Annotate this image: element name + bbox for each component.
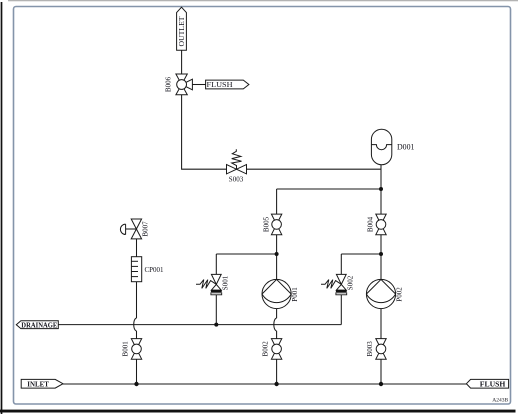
svg-text:B001: B001 [121,341,129,357]
svg-text:A243B: A243B [492,398,508,404]
svg-text:INLET: INLET [27,380,49,389]
svg-text:CP001: CP001 [145,266,165,274]
svg-text:B004: B004 [367,216,375,232]
svg-text:S003: S003 [229,175,244,183]
svg-text:B005: B005 [262,216,270,232]
svg-text:S001: S001 [221,275,229,290]
svg-text:B002: B002 [262,341,270,357]
svg-text:S002: S002 [346,275,354,290]
svg-text:B006: B006 [165,76,173,92]
svg-text:P001: P001 [291,287,299,302]
svg-text:B003: B003 [366,341,374,357]
svg-text:OUTLET: OUTLET [177,16,186,46]
svg-text:B007: B007 [142,221,150,237]
svg-text:DRAINAGE: DRAINAGE [21,320,57,329]
svg-text:FLUSH: FLUSH [207,80,234,89]
svg-text:FLUSH: FLUSH [480,380,506,389]
svg-text:D001: D001 [397,142,415,152]
svg-text:P002: P002 [395,287,403,302]
